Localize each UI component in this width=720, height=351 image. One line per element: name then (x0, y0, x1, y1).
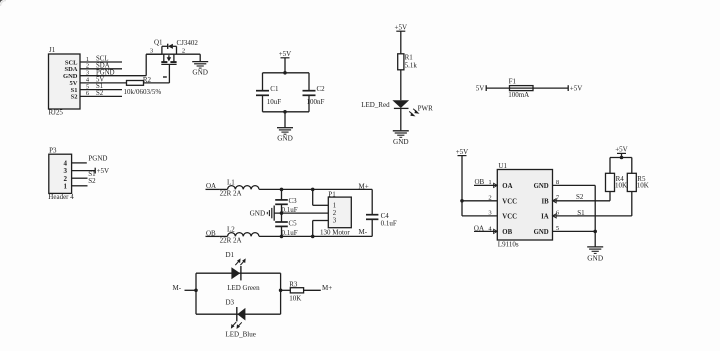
fuse F1 100mA (508, 78, 533, 100)
svg-text:M+: M+ (359, 182, 369, 190)
svg-text:+5V: +5V (97, 167, 110, 175)
wire U1 pin8 GND (553, 179, 596, 231)
power +5V above C1 C2 (279, 50, 292, 73)
wire U1 pin2 VCC (462, 195, 497, 202)
wire R1 to LED (400, 70, 402, 100)
svg-text:F1: F1 (509, 78, 517, 86)
svg-text:3: 3 (86, 70, 89, 77)
svg-text:GND: GND (393, 138, 409, 146)
resistor R3 10K (289, 281, 303, 303)
wire P1 pin1 (313, 189, 329, 205)
capacitor C2 (303, 73, 326, 112)
svg-text:IA: IA (541, 213, 549, 220)
svg-text:GND: GND (250, 210, 266, 218)
wire J1 pin 4 (5V) (80, 77, 127, 84)
svg-text:S2: S2 (576, 193, 584, 201)
led D3 LED_Blue (226, 299, 256, 339)
connector J1 (49, 46, 81, 117)
wire U1 pin5 GND (553, 225, 598, 233)
ground GND under U1 right (587, 231, 603, 262)
svg-text:3: 3 (333, 217, 337, 224)
wire R4 bottom to S2 (609, 192, 611, 201)
connector P3 Header 4 (48, 147, 74, 201)
J1 inner pin names (63, 59, 78, 100)
svg-text:0.1uF: 0.1uF (381, 220, 397, 228)
svg-text:S2: S2 (88, 177, 96, 185)
power +5V above R4 R5 (615, 146, 628, 160)
led arrows D1 (235, 258, 245, 265)
svg-text:0.1uF: 0.1uF (282, 229, 298, 237)
svg-text:10K: 10K (289, 295, 301, 303)
svg-text:J1: J1 (49, 46, 56, 54)
power port +5V right of F1 (568, 85, 582, 93)
wire L2 to M- corner (259, 228, 372, 238)
capacitor C1 (256, 73, 281, 112)
resistor R2 (124, 76, 162, 96)
wire J1 pin 2 (SDA) (80, 62, 122, 69)
svg-text:GND: GND (534, 183, 549, 190)
ic U1 L9110s (497, 162, 552, 248)
svg-text:GND: GND (63, 73, 78, 80)
wire LED to GND (400, 109, 402, 131)
svg-text:GND: GND (192, 69, 208, 77)
wire mid rail to P1 pin2 (274, 211, 328, 215)
svg-text:OA: OA (502, 183, 512, 190)
svg-text:LED Green: LED Green (227, 284, 260, 292)
svg-text:LED_Blue: LED_Blue (226, 330, 256, 338)
svg-text:RJ25: RJ25 (49, 109, 64, 117)
svg-text:S1: S1 (577, 209, 585, 217)
resistor R4 10K (606, 173, 628, 191)
wire right vertical of LED pair (279, 273, 283, 314)
svg-text:10k/0603/5%: 10k/0603/5% (124, 88, 162, 96)
wire bottom branch (196, 313, 281, 315)
wire PGND to Q1 (146, 54, 162, 75)
svg-text:VCC: VCC (502, 198, 517, 205)
wire P3 pin3 +5V (72, 167, 110, 175)
svg-text:+5V: +5V (615, 146, 628, 154)
svg-text:PGND: PGND (96, 69, 115, 76)
svg-text:5V: 5V (476, 85, 485, 93)
svg-text:GND: GND (534, 229, 549, 236)
wire R5 bottom to S1 (631, 192, 633, 216)
capacitor C5 (275, 213, 298, 237)
svg-text:PGND: PGND (88, 155, 107, 163)
wire P3 pin2 S1 (72, 170, 96, 178)
svg-text:5.1k: 5.1k (405, 61, 418, 69)
svg-text:2: 2 (333, 210, 337, 217)
ground GND left of C3 C5 (250, 206, 275, 221)
svg-text:CJ3402: CJ3402 (177, 39, 199, 47)
wire gnd rail under C1 C2 (263, 110, 310, 114)
svg-text:P3: P3 (49, 147, 57, 155)
svg-text:1: 1 (333, 203, 336, 210)
svg-text:1: 1 (64, 182, 68, 190)
svg-text:C5: C5 (289, 219, 298, 227)
led LED_Red D? (361, 100, 409, 109)
wire J1 pin 5 (S1) (80, 83, 122, 90)
svg-text:+5V: +5V (456, 148, 469, 156)
svg-text:Q1: Q1 (154, 39, 163, 47)
svg-text:VCC: VCC (502, 213, 517, 220)
svg-text:PWR: PWR (418, 104, 434, 112)
ground GND under C1 C2 (277, 112, 293, 143)
power +5V above R1 (395, 23, 408, 53)
svg-text:C3: C3 (289, 197, 298, 205)
connector P1 130 Motor (320, 190, 351, 236)
wire R2 to Q1 gate (144, 65, 170, 83)
node OA top wire (206, 182, 220, 190)
svg-text:S2: S2 (96, 90, 104, 97)
svg-text:S2: S2 (71, 94, 78, 101)
node OB bottom wire (206, 229, 220, 237)
wire R3 to M+ (304, 284, 333, 292)
svg-text:+5V: +5V (279, 50, 292, 58)
capacitor C4 (366, 189, 397, 236)
ground GND at Q1 (192, 54, 208, 76)
wire dot to R3 (281, 289, 291, 291)
svg-text:D3: D3 (226, 299, 235, 307)
svg-text:6: 6 (86, 90, 89, 97)
wire R4 R5 tops (610, 158, 632, 174)
wire P3 pin4 PGND (72, 155, 108, 163)
power +5V left of U1 (456, 148, 469, 216)
svg-text:L9110s: L9110s (498, 241, 519, 249)
svg-text:M-: M- (173, 284, 182, 292)
svg-text:22R 2A: 22R 2A (220, 237, 242, 245)
svg-text:D1: D1 (226, 251, 235, 259)
svg-text:GND: GND (277, 135, 293, 143)
svg-text:22R 2A: 22R 2A (220, 189, 242, 197)
wire J1 pin 6 (S2) (80, 90, 122, 97)
wire L1 to M+ corner (259, 182, 372, 191)
svg-text:R1: R1 (405, 53, 414, 61)
svg-text:2: 2 (182, 47, 185, 54)
svg-text:OB: OB (502, 229, 512, 236)
svg-text:130 Motor: 130 Motor (320, 229, 350, 237)
wire U1 pin7 IB S2 (553, 193, 611, 203)
wire 5V to F1 (486, 87, 509, 89)
wire U1 pin1 OB (474, 178, 497, 187)
inductor L2 22R 2A (220, 225, 259, 244)
P3 pin numbers (64, 160, 68, 191)
svg-text:C2: C2 (317, 85, 326, 93)
node M- left (173, 284, 198, 292)
svg-text:10uF: 10uF (267, 98, 282, 106)
wire U1 pin3 VCC (462, 210, 497, 217)
transistor Q1 CJ3402 (146, 39, 200, 78)
svg-text:Header 4: Header 4 (48, 193, 74, 201)
wire LED branch left vertical (195, 273, 197, 314)
svg-text:100nF: 100nF (307, 98, 325, 106)
wire top branch (196, 272, 281, 274)
svg-text:GND: GND (587, 254, 603, 263)
resistor R5 10K (627, 173, 648, 191)
capacitor C3 (275, 189, 298, 214)
wire U1 pin6 IA S1 (553, 209, 632, 218)
wire F1 to +5V (533, 87, 568, 89)
led arrows PWR (409, 104, 433, 116)
svg-text:100mA: 100mA (508, 91, 529, 99)
inductor L1 22R 2A (220, 178, 259, 197)
svg-text:10K: 10K (615, 182, 627, 190)
wire P1 pin3 (313, 221, 329, 237)
wire P3 pin1 S2 (72, 177, 96, 186)
led D1 LED Green (226, 251, 261, 292)
resistor R1 (398, 53, 418, 70)
svg-text:M-: M- (359, 228, 368, 236)
svg-text:+5V: +5V (570, 85, 583, 93)
svg-text:P1: P1 (328, 190, 336, 198)
ground GND under LED_Red (393, 131, 409, 146)
wire +5V rail (263, 71, 310, 75)
wire J1 pin 1 (SCL) (80, 56, 122, 63)
wire J1 pin 3 (PGND) (80, 69, 146, 76)
power port 5V left of F1 (476, 85, 486, 93)
led arrows D3 (231, 322, 242, 329)
svg-text:10K: 10K (637, 182, 649, 190)
page corner mark (0, 0, 6, 6)
svg-text:IB: IB (542, 198, 550, 205)
svg-text:C1: C1 (270, 85, 279, 93)
svg-text:+5V: +5V (395, 23, 408, 31)
wire U1 pin4 OA (474, 224, 497, 233)
svg-text:M+: M+ (322, 284, 332, 292)
svg-text:LED_Red: LED_Red (361, 101, 390, 109)
svg-text:U1: U1 (498, 162, 507, 170)
